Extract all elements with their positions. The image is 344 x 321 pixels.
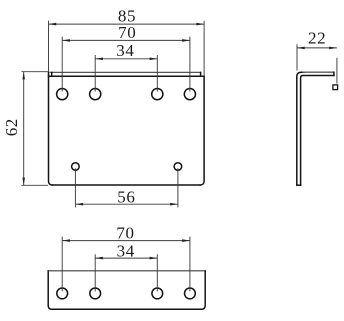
label 22 [308, 29, 326, 48]
dim 62 top extension [21, 71, 48, 73]
dim 56 right extension from hole B2 [177, 168, 179, 207]
dim 56 left extension from hole B1 [74, 168, 76, 207]
bend line upper (flange top edge) [50, 71, 200, 73]
dim 70 left extension into hole A1 [61, 37, 63, 92]
dim 34 left arrow [95, 58, 103, 61]
dim 56 left arrow [75, 203, 83, 206]
dim 22 line [297, 47, 337, 49]
dim 62 bottom extension [21, 184, 48, 186]
plate left edge [49, 72, 53, 185]
small square marker [333, 85, 338, 90]
hole C4 [185, 288, 196, 299]
dim 56 line [75, 203, 177, 205]
dim 22 left extension [296, 44, 298, 70]
dim 85 left arrow [49, 23, 57, 26]
dim 34b right arrow [150, 257, 158, 260]
dim 34 line [95, 58, 157, 60]
arrowheads bottom view [62, 239, 190, 259]
main front view: bracket plate outline [49, 72, 205, 185]
dim 85 left extension [48, 21, 50, 72]
svg-text:62: 62 [2, 118, 21, 136]
bottom view: flange seen from below [48, 271, 205, 310]
dim 34b left arrow [95, 257, 103, 260]
dimension text front view [2, 6, 136, 206]
dim 34b right extension into hole C3 [156, 254, 158, 291]
dim 70b right extension into hole C4 [189, 237, 191, 292]
dim 70b right arrow [182, 239, 190, 242]
dim 70 left arrow [62, 39, 70, 42]
hole C1 [57, 288, 68, 299]
dim 70 right extension into hole A4 [189, 37, 191, 92]
side view: L profile [297, 72, 334, 185]
leg bottom cap [297, 184, 301, 186]
dim 70b left extension into hole C1 [61, 237, 63, 292]
dim 70 right arrow [182, 39, 190, 42]
hole C2 [90, 288, 101, 299]
dim 34 left extension into hole A2 [94, 55, 96, 92]
bottom view outline sides and bottom [48, 271, 205, 310]
dim 70b line [62, 240, 190, 242]
svg-text:56: 56 [117, 188, 135, 207]
hole A1 [57, 89, 68, 100]
dim 34b line [95, 257, 157, 259]
lower hole B1 [72, 163, 80, 171]
dim 56 right arrow [170, 203, 178, 206]
flange end cap [333, 72, 335, 75]
arrowheads front view [22, 23, 204, 206]
bottom view top edge [48, 270, 205, 272]
svg-text:34: 34 [116, 41, 134, 60]
dim 85 line [49, 23, 205, 25]
dim 62 line [23, 72, 25, 186]
dim 85 right arrow [196, 23, 204, 26]
hole C3 [152, 288, 163, 299]
dim 22 right extension to square [336, 58, 338, 84]
dim 85 right extension [203, 21, 205, 77]
dim 22 left arrow [297, 47, 305, 50]
dim 34b left extension into hole C2 [94, 254, 96, 291]
hole A3 [152, 89, 163, 100]
dim 22 right arrow [329, 47, 337, 50]
L profile inner contour [301, 76, 334, 186]
flange end notch right [200, 72, 202, 76]
dim 34 right extension into hole A3 [156, 55, 158, 92]
svg-text:70: 70 [116, 223, 134, 242]
svg-text:70: 70 [118, 23, 136, 42]
plate bottom edge [52, 184, 200, 186]
top row holes in front view [57, 89, 196, 171]
hole A2 [90, 89, 101, 100]
dim 70 line [62, 39, 190, 41]
dimension text bottom view [116, 223, 134, 260]
L profile outer flange top edge [303, 71, 334, 73]
L profile outer vertical and bend [297, 72, 304, 185]
plate right edge [200, 76, 204, 185]
hole A4 [184, 89, 195, 100]
dim 62 top arrow [22, 72, 25, 80]
flange end notch left [51, 72, 53, 76]
dimension 22 side view [297, 44, 337, 83]
dim 70b left arrow [62, 239, 70, 242]
svg-text:34: 34 [117, 241, 135, 260]
svg-text:22: 22 [308, 29, 326, 48]
lower hole B2 [174, 163, 182, 171]
dimension lines bottom view [62, 237, 190, 292]
dim 62 bottom arrow [22, 178, 25, 186]
bend line lower [49, 75, 205, 77]
dim 34 right arrow [150, 58, 158, 61]
dimension lines front view [21, 21, 204, 208]
